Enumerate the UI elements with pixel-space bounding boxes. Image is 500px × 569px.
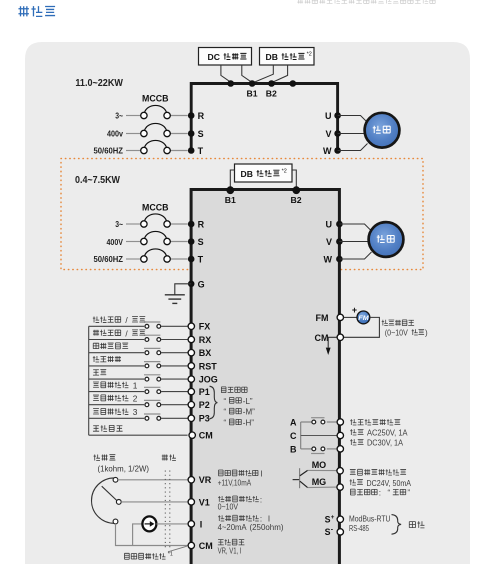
svg-text:+: + [352,305,357,315]
terminal R (7.5kW) [188,220,205,230]
svg-text:FM: FM [316,313,329,323]
wire: common terminal CM input [89,425,188,435]
svg-text:B2: B2 [290,195,301,205]
svg-text:RX: RX [199,335,212,345]
switch input JOG (寸动) [89,369,188,381]
terminal MG [337,484,343,490]
svg-text:“: “ [224,418,227,427]
DB resistor box (7.5kW) [235,164,293,182]
node B1 (11kW) [247,80,258,98]
note: fault output relay ratings [350,419,408,448]
wire: DC reactor leads [221,65,252,82]
wire: FM to meter [344,316,358,318]
svg-text:FM: FM [358,315,369,322]
note: I terminal description [218,515,284,532]
svg-text:B2: B2 [266,89,277,99]
wire: current source to I [156,523,187,525]
svg-text:FX: FX [199,322,211,332]
svg-text:RS-485: RS-485 [349,524,369,533]
transistor Q1 (open collector output) [293,468,308,488]
svg-text:400V: 400V [107,238,124,247]
terminal P3 [188,414,210,424]
svg-text:U: U [326,220,333,230]
svg-text:T: T [198,146,204,156]
terminal B [290,444,343,454]
svg-text:CM: CM [199,431,213,441]
svg-text:2: 2 [133,394,138,404]
terminal S+ [325,514,344,525]
wire: meter return loop to CM [344,317,379,337]
terminal MO [337,468,343,474]
terminal FM [316,313,344,323]
svg-text:B1: B1 [225,195,236,205]
wire: MO line [308,460,337,471]
svg-text:1: 1 [133,380,138,390]
svg-text:DC: DC [208,52,220,62]
node B2 (7.5kW) [290,186,301,205]
terminal C [290,431,343,441]
svg-text:DC30V, 1A: DC30V, 1A [367,439,403,448]
switch input RX (反向运行 / 停止) [89,328,188,341]
terminal JOG [188,375,218,385]
terminal T (11kW) [188,146,204,156]
terminal CM (digital common) [189,431,213,441]
node B1 (7.5kW) [225,186,236,205]
note: potentiometer label [94,454,150,473]
section border 0.4~7.5KW (orange dotted) [61,159,423,270]
terminal A [290,418,343,428]
svg-text:T: T [198,255,204,265]
svg-text:“: “ [388,489,391,498]
svg-text:U: U [325,111,332,121]
wire: U/V/W to motor (7.5kW) [339,224,371,259]
terminal I [188,519,202,529]
note: factory setting speeds for P1-P3 [210,386,256,427]
svg-text:MCCB: MCCB [142,94,169,105]
svg-text:-H”: -H” [243,418,254,427]
svg-text:VR: VR [199,475,212,485]
svg-text:S: S [198,129,204,139]
switch input FX (正向运行 / 停止) [89,315,188,328]
svg-text:-L”: -L” [243,397,253,406]
terminal VR [188,475,212,485]
svg-text:MO: MO [312,460,327,470]
svg-text:CM: CM [199,541,213,551]
svg-text:3~: 3~ [115,111,123,120]
svg-text:R: R [198,111,205,121]
relay contact B (NO) [301,447,337,454]
ground symbol [165,284,191,304]
svg-text:50/60HZ: 50/60HZ [94,255,124,264]
svg-text:G: G [198,279,205,289]
shield dotted lines [165,471,170,550]
terminal FX [188,322,210,332]
potentiometer R1 1kohm [92,477,122,523]
terminal S (7.5kW) [188,237,204,247]
terminal U (7.5kW) [326,220,343,230]
svg-text:S: S [198,237,204,247]
terminal T (7.5kW) [188,255,204,265]
junction dots on DC bus [227,80,296,87]
svg-text:B1: B1 [247,89,258,99]
svg-text:+: + [331,514,335,521]
svg-text:3~: 3~ [115,220,123,229]
terminal U (11kW) [325,111,341,121]
svg-text:(250ohm): (250ohm) [250,523,284,532]
svg-text:+11V,10mA: +11V,10mA [218,479,252,488]
terminal V (7.5kW) [326,237,343,247]
svg-text:MCCB: MCCB [142,203,169,214]
breaker MCCB (7.5kW) [126,203,188,263]
svg-text:RST: RST [199,361,218,371]
note: VR terminal description [218,469,263,487]
svg-text:C: C [290,431,297,441]
svg-text:DC24V, 50mA: DC24V, 50mA [367,479,412,488]
note: speed signal input leader [125,546,187,559]
terminal W (7.5kW) [324,255,343,265]
svg-text:0~10V: 0~10V [218,503,239,512]
svg-text:A: A [290,418,297,428]
switch input RST (故障复位) [89,356,188,368]
svg-text:): ) [425,329,428,338]
svg-text:R: R [198,220,205,230]
switch input P2 (多功能输入 2) [89,394,188,407]
svg-text:*2: *2 [282,168,287,174]
wire: MG line [308,477,337,487]
svg-text:JOG: JOG [199,375,218,385]
svg-text:400v: 400v [107,129,123,138]
note: shield label [162,454,176,460]
svg-text:ModBus-RTU: ModBus-RTU [349,514,391,523]
motor M1 (11kW) [365,113,400,148]
svg-text:(1kohm, 1/2W): (1kohm, 1/2W) [98,463,150,473]
wire: relay common bus [300,422,302,449]
svg-text:50/60HZ: 50/60HZ [94,146,124,155]
wire: pot wiper to V1 [121,501,187,503]
arrow to common (CM) [326,337,337,355]
DB resistor box (11kW) [260,48,315,66]
svg-text:0.4~7.5KW: 0.4~7.5KW [75,175,120,186]
svg-text:P1: P1 [199,387,210,397]
svg-text::: : [379,489,381,498]
svg-text:“: “ [224,408,227,417]
svg-text:V: V [326,237,332,247]
inverter main body [191,190,339,566]
svg-text:”: ” [407,489,410,498]
wire: DB resistor leads (11kW) [253,65,287,83]
terminal CM (meter return) [315,333,344,343]
breaker MCCB (11kW) [126,94,188,154]
terminal RST [188,361,217,371]
node B2 (11kW) [266,80,277,98]
svg-text:DB: DB [266,52,278,62]
svg-text:3: 3 [133,407,138,417]
svg-text:-M”: -M” [243,408,255,417]
svg-text:B: B [290,444,297,454]
wire: pot bottom / current source common to CM [116,524,188,546]
svg-text:*1: *1 [168,552,173,558]
terminal P1 [188,387,210,397]
switch input P3 (多功能输入 3) [89,407,188,420]
terminal R (11kW) [188,111,205,121]
svg-text:“: “ [224,397,227,406]
relay contact A (NC) [301,418,337,424]
note: ModBus-RTU RS-485 communication [349,514,424,534]
svg-text:W: W [323,146,332,156]
svg-text:DB: DB [241,169,253,179]
svg-text:BX: BX [199,348,212,358]
wire: DB resistor leads (7.5kW) [230,170,296,189]
svg-text:P2: P2 [199,400,210,410]
switch input BX (变频器急停) [89,343,188,355]
terminal P2 [188,400,210,410]
svg-text:P3: P3 [199,414,210,424]
FM frequency meter [352,305,370,324]
svg-text:4~20mA: 4~20mA [218,523,248,532]
note: transistor output ratings [350,469,412,497]
svg-text:11.0~22KW: 11.0~22KW [75,78,123,89]
wire: U/V/W to motor (11kW) [338,116,368,151]
motor M2 (7.5kW) [369,222,404,257]
switch input P1 (多功能输入 1) [89,380,188,393]
wire: pot to VR [118,479,188,481]
DC reactor box [199,48,252,66]
note: supply 3~ 400V 50/60HZ (7.5kW) [94,220,124,264]
terminal S (11kW) [188,129,204,139]
wire: digital input common bus [88,326,90,435]
svg-text:I: I [261,469,263,478]
terminal S- [325,526,344,537]
current source symbol (4~20mA) [142,516,156,531]
svg-text:AC250V, 1A: AC250V, 1A [367,429,408,438]
svg-text:W: W [324,255,333,265]
terminal RX [188,335,211,345]
wire: relay C [301,435,337,437]
terminal W (11kW) [323,146,341,156]
svg-text:CM: CM [315,333,329,343]
terminal V (11kW) [325,129,340,139]
svg-text:I: I [200,519,203,529]
svg-text:VR, V1, I: VR, V1, I [218,547,242,556]
svg-text:(0~10V: (0~10V [385,329,409,338]
terminal V1 [188,497,210,507]
wire: 11kW DC bus (top) with left/right drops [191,84,337,153]
terminal CM (analog common) [188,541,213,551]
note: CM terminal description [218,539,245,555]
svg-text:V: V [325,129,331,139]
terminal BX [188,348,211,358]
note: supply 3~ 400v 50/60HZ (11kW) [94,111,124,155]
svg-text:MG: MG [312,477,327,487]
svg-text:V1: V1 [199,497,210,507]
svg-text::: : [260,495,262,504]
note: output frequency meter [382,320,428,338]
note: V1 terminal description [218,495,263,511]
svg-text:*2: *2 [307,52,312,58]
terminal G [188,279,205,289]
